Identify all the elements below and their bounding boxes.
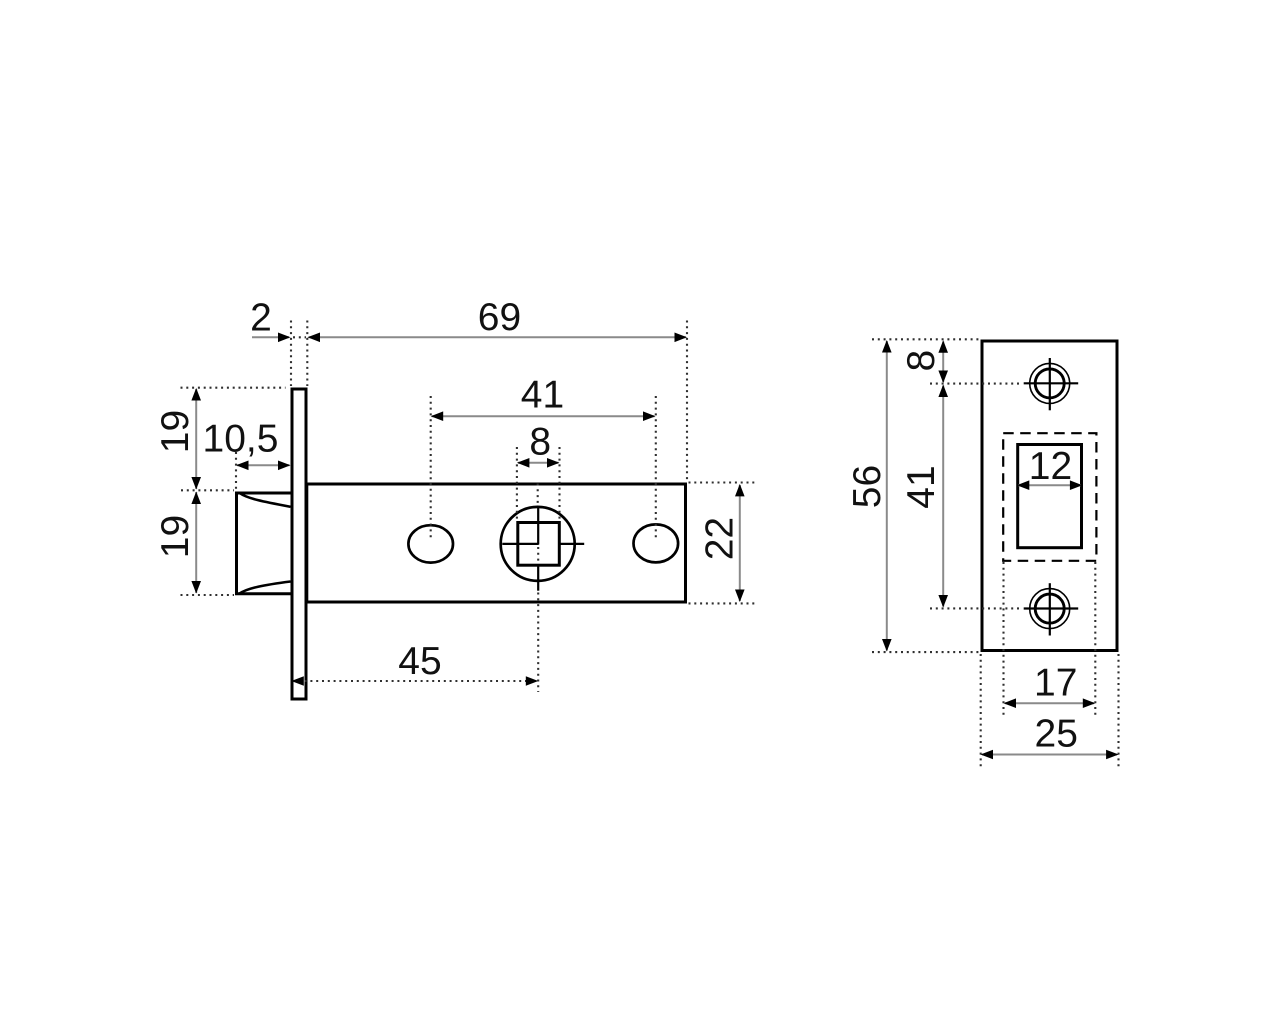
latch bolt top bevel curve — [240, 493, 291, 507]
svg-text:25: 25 — [1035, 713, 1078, 756]
dim 8r line — [942, 342, 944, 383]
right oval hole — [634, 524, 679, 562]
dim 45 arrow left — [291, 676, 304, 686]
dim 12 arrow left — [1017, 480, 1030, 490]
centreline inside spindle — [537, 547, 539, 564]
dim 41 arrow left — [431, 411, 444, 421]
dim 25 arrow left — [981, 750, 994, 760]
dim 41 arrow right — [643, 411, 656, 421]
svg-text:69: 69 — [478, 296, 521, 339]
dim 2 leader line — [252, 336, 289, 338]
svg-text:2: 2 — [250, 297, 272, 340]
dim 8r arrow bottom — [938, 371, 948, 384]
dim 69 arrow right — [675, 333, 688, 343]
latch opening rectangle — [1018, 445, 1082, 548]
extension line plate top left — [872, 338, 979, 340]
spindle crosshair vertical lower — [537, 566, 539, 591]
top screw hole inner circle — [1035, 369, 1064, 398]
dim 45 arrow right — [526, 676, 539, 686]
extension line cutout left — [1002, 562, 1004, 716]
centreline below spindle — [537, 593, 539, 693]
dim 56 line — [886, 341, 888, 651]
svg-text:17: 17 — [1034, 662, 1077, 705]
dim 22 arrow bottom — [735, 590, 745, 603]
dim 41r arrow bottom — [938, 595, 948, 608]
svg-text:41: 41 — [521, 374, 564, 417]
dim 17 line — [1005, 702, 1094, 704]
extension line square right — [558, 447, 560, 520]
dim 17 arrow right — [1083, 698, 1096, 708]
dim 19 lower arrow top — [191, 492, 201, 505]
svg-text:56: 56 — [846, 465, 889, 508]
dim 41r line — [942, 386, 944, 607]
bottom screw crosshair vertical — [1049, 583, 1051, 635]
bottom screw crosshair horizontal — [1024, 607, 1078, 609]
extension line square left — [516, 447, 518, 520]
left oval hole — [408, 525, 453, 562]
bottom screw hole inner circle — [1035, 594, 1064, 623]
spindle crosshair horizontal left — [502, 543, 538, 545]
svg-text:12: 12 — [1029, 445, 1072, 488]
dim 19 upper arrow top — [191, 388, 201, 401]
dim 69 arrow left — [308, 333, 321, 343]
dim 17 arrow left — [1004, 698, 1017, 708]
spindle circle — [501, 507, 575, 581]
dim 10,5 line — [237, 464, 290, 466]
extension line bottom screw centre — [930, 607, 1022, 609]
centreline left hole — [430, 396, 432, 541]
dim 2 arrow — [278, 333, 291, 343]
dim 56 arrow top — [882, 340, 892, 353]
extension line bolt left edge — [235, 452, 237, 489]
dim 22 arrow top — [735, 484, 745, 497]
strike plate outline — [982, 341, 1117, 651]
dim 69 line — [309, 336, 687, 338]
extension line cutout right — [1094, 562, 1096, 716]
extension line bolt bottom — [181, 594, 235, 596]
top screw crosshair vertical — [1049, 358, 1051, 410]
dim 2 gap line — [293, 336, 306, 338]
dim 56 arrow bottom — [882, 639, 892, 652]
svg-text:19: 19 — [154, 410, 197, 453]
top screw hole outer circle — [1030, 363, 1070, 403]
dim 19 lower line — [195, 492, 197, 593]
extension line plate left lower — [980, 654, 982, 768]
dim 8 arrow left — [517, 458, 530, 468]
svg-text:10,5: 10,5 — [203, 418, 279, 461]
dim 19 upper line — [195, 389, 197, 489]
extension line faceplate left edge — [290, 321, 292, 387]
svg-text:22: 22 — [698, 517, 741, 560]
svg-text:8: 8 — [900, 350, 943, 372]
dim 25 arrow right — [1106, 750, 1119, 760]
dim 8 arrow right — [547, 458, 560, 468]
extension line body top right — [689, 481, 757, 483]
extension line faceplate top — [181, 387, 286, 389]
extension line bolt top — [181, 489, 234, 491]
spindle square hole — [518, 523, 560, 566]
dim 12 arrow right — [1070, 480, 1083, 490]
centreline above spindle — [537, 484, 539, 507]
top screw crosshair horizontal — [1024, 382, 1078, 384]
spindle crosshair vertical upper — [537, 508, 539, 545]
latch bolt bottom bevel curve — [240, 582, 291, 594]
dim 45 dotted line — [293, 680, 536, 682]
dim 10,5 arrow right — [278, 461, 291, 471]
svg-text:41: 41 — [900, 465, 943, 508]
faceplate outline — [292, 389, 306, 699]
latch bolt outline — [237, 493, 291, 594]
svg-text:19: 19 — [154, 515, 197, 558]
dim 41 line — [432, 415, 655, 417]
extension line body right edge — [686, 321, 688, 482]
extension line faceplate right edge — [306, 321, 308, 387]
bottom screw hole outer circle — [1030, 589, 1070, 629]
svg-text:8: 8 — [529, 421, 551, 464]
extension line body bottom right — [689, 602, 757, 604]
extension line plate bottom left — [872, 651, 979, 653]
dim 8r arrow top — [938, 340, 948, 353]
dim 12 line — [1018, 484, 1081, 486]
dim 25 line — [982, 754, 1117, 756]
latch body outline — [307, 484, 686, 602]
centreline right hole — [655, 396, 657, 541]
dim 22 line — [739, 485, 741, 601]
dashed cutout rectangle — [1003, 433, 1096, 561]
dim 41r arrow top — [938, 385, 948, 398]
svg-text:45: 45 — [398, 640, 441, 683]
extension line top screw centre — [930, 383, 1022, 385]
dim 8 line — [518, 462, 559, 464]
dim 10,5 arrow left — [236, 461, 249, 471]
extension line plate right lower — [1117, 654, 1119, 768]
dim 19 lower arrow bottom — [191, 581, 201, 594]
dim 19 upper arrow bottom — [191, 477, 201, 490]
spindle crosshair horizontal right — [559, 543, 584, 545]
